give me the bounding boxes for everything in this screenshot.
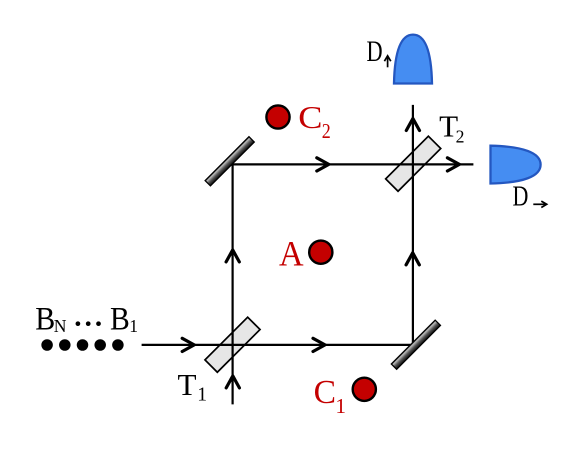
subscript up-arrow glyph [384,56,390,68]
wire bottom horizontal [142,344,414,346]
svg-text:D: D [367,36,383,68]
input photon dots B [41,339,123,351]
svg-text:2: 2 [456,127,465,147]
beam splitter T1 [205,317,260,372]
arrow bottom mid right [313,338,325,351]
wire top horizontal [233,163,474,165]
arrow above T2 up [406,119,419,131]
svg-text:B: B [35,301,55,337]
atom circle C1 [353,378,376,401]
detector D right [491,146,541,184]
arrow below T1 up [226,376,239,388]
arrow right of T2 right [447,158,459,171]
svg-text:D: D [513,182,529,213]
svg-text:1: 1 [129,316,138,336]
detector D up [394,35,432,84]
arrow top mid right [317,158,329,171]
arrow right vertical up [406,253,419,265]
beam splitter T2 [386,136,441,191]
svg-text:T: T [178,368,197,402]
svg-text:B: B [110,301,130,337]
wire right vertical [412,105,414,345]
ellipsis dots [76,321,101,326]
svg-text:C: C [314,374,336,411]
svg-text:A: A [279,233,304,273]
atom circle A [309,241,332,264]
svg-text:N: N [54,316,67,336]
svg-text:C: C [298,100,322,135]
arrow left vertical up [226,250,239,262]
arrow input right [182,338,194,351]
svg-text:1: 1 [197,384,207,405]
mirror bottom-right [391,320,440,369]
svg-text:1: 1 [335,394,346,418]
mirror top-left [205,137,254,186]
wire left vertical [232,164,234,404]
atom circle C2 [266,105,289,128]
subscript right-arrow glyph [533,201,546,207]
svg-text:2: 2 [322,119,331,143]
